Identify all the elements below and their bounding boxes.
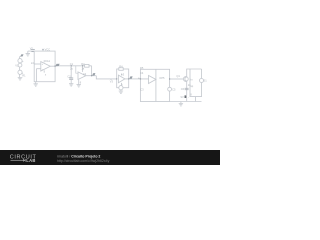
svg-text:C4: C4 xyxy=(140,71,144,75)
svg-text:V1: V1 xyxy=(15,63,19,67)
svg-text:C6: C6 xyxy=(181,87,185,91)
svg-text:R5: R5 xyxy=(140,66,144,70)
svg-text:http://circuitlab.com/c/9wj2h6: http://circuitlab.com/c/9wj2h62x4y xyxy=(57,159,110,163)
svg-text:rmatolli / Circuito Projeto 2: rmatolli / Circuito Projeto 2 xyxy=(57,154,100,158)
svg-text:LAB: LAB xyxy=(26,158,35,163)
svg-text:V3: V3 xyxy=(110,80,114,84)
svg-text:C5: C5 xyxy=(172,87,176,91)
svg-text:C3: C3 xyxy=(140,88,144,92)
svg-text:OA1: OA1 xyxy=(45,59,51,63)
svg-text:A2: A2 xyxy=(83,72,87,76)
svg-text:Q1: Q1 xyxy=(176,74,180,78)
svg-text:R1: R1 xyxy=(22,74,26,78)
svg-text:C1: C1 xyxy=(70,62,74,66)
svg-text:S1: S1 xyxy=(204,78,208,82)
svg-text:R4: R4 xyxy=(119,64,123,68)
svg-text:R2: R2 xyxy=(81,62,85,66)
svg-text:OP5: OP5 xyxy=(159,76,165,80)
svg-text:V2: V2 xyxy=(30,47,34,51)
svg-text:VCC: VCC xyxy=(45,48,51,52)
svg-text:C2: C2 xyxy=(67,74,71,78)
svg-text:in1: in1 xyxy=(31,61,35,65)
svg-text:9V: 9V xyxy=(181,95,184,99)
svg-text:A3: A3 xyxy=(121,73,125,77)
